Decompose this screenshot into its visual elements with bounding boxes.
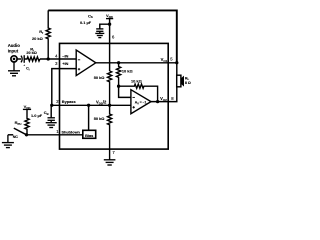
node feedback output junction [156, 100, 159, 103]
svg-text:Input: Input [8, 48, 19, 53]
resistor 10k vertical [117, 63, 121, 86]
wire to Cs [100, 24, 110, 29]
svg-text:10 kΩ: 10 kΩ [122, 69, 133, 74]
capacitor Ci [21, 55, 24, 63]
wire feedback top rail [48, 10, 177, 62]
capacitor CB [50, 105, 52, 118]
svg-text:+IN: +IN [62, 61, 68, 66]
node bypass external junction [50, 104, 53, 107]
switch SW1 [14, 128, 27, 135]
Bias control box [83, 130, 96, 138]
input jack connector J1 [11, 56, 17, 62]
wire bias to rail [88, 105, 90, 130]
wire rail to speaker [176, 63, 178, 75]
node Vo1 speaker junction [175, 61, 178, 64]
svg-text:20 kΩ: 20 kΩ [26, 51, 36, 55]
svg-text:8 Ω: 8 Ω [185, 81, 191, 85]
svg-text:Bypass: Bypass [62, 99, 76, 104]
resistor Rf [46, 10, 50, 59]
node bias tee junction [87, 104, 90, 107]
svg-text:20 kΩ: 20 kΩ [32, 36, 43, 41]
ground under jack [8, 62, 20, 76]
op-amp U1A [76, 50, 96, 76]
resistor 50k upper [108, 71, 112, 105]
svg-text:−IN: −IN [62, 54, 68, 59]
svg-text:Shutdown: Shutdown [62, 130, 81, 134]
resistor 10k feedback [119, 84, 158, 102]
wire speaker to Vo2 [168, 87, 177, 102]
resistor RPU [25, 109, 29, 134]
wire op-amp2 output to Vo2 [151, 101, 168, 103]
ground pin 7 [104, 160, 116, 165]
wire jack to Ci [17, 58, 21, 60]
ground under switch [2, 135, 14, 148]
wire shutdown pin 1 [27, 134, 83, 136]
op-amp U1B [131, 90, 151, 114]
node A : -IN junction dot [47, 57, 50, 60]
svg-text:10 kΩ: 10 kΩ [131, 78, 142, 83]
wire op-amp1 output to Vo1 [96, 62, 177, 64]
svg-text:50 kΩ: 50 kΩ [94, 75, 105, 80]
svg-text:50 kΩ: 50 kΩ [94, 116, 105, 121]
svg-text:AV = −1: AV = −1 [135, 101, 147, 106]
svg-text:1.0 µF: 1.0 µF [31, 113, 43, 118]
wire node to -IN of op-amp2 [119, 86, 131, 97]
svg-text:0.1 µF: 0.1 µF [80, 20, 92, 25]
svg-text:NC: NC [13, 135, 19, 139]
svg-text:Bias: Bias [85, 133, 93, 138]
wire Ri to -IN pin 4 [40, 58, 76, 60]
capacitor Cs [96, 29, 103, 31]
node VDD / Cs junction [108, 23, 111, 26]
wire VDD pin 6 to 50k [109, 24, 111, 71]
node A2 junction [117, 85, 120, 88]
IC boundary box U1 [60, 43, 169, 149]
ground under Cs [95, 31, 104, 37]
bypass rail wire [52, 104, 131, 106]
svg-text:+: + [23, 63, 25, 67]
ground under CB [46, 120, 57, 127]
wire +IN pin 3 [52, 69, 60, 106]
node 10k top junction [117, 61, 120, 64]
speaker RL [177, 75, 181, 87]
svg-text:Audio: Audio [8, 43, 21, 48]
resistor 50k lower [108, 105, 112, 160]
node switch junction [25, 133, 28, 136]
resistor Ri [24, 57, 40, 61]
wire -IN internal [60, 68, 77, 70]
node divider mid junction [108, 104, 111, 107]
